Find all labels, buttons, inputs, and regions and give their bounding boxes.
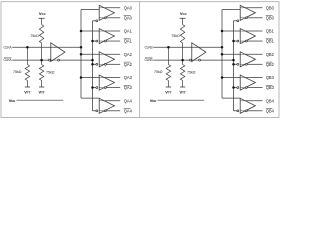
svg-text:VTT: VTT — [180, 90, 186, 95]
svg-text:QA2: QA2 — [124, 52, 133, 57]
svg-text:CLKA: CLKA — [3, 58, 12, 62]
svg-text:75kΩ: 75kΩ — [171, 34, 180, 38]
svg-text:QA3: QA3 — [124, 85, 133, 90]
svg-text:QB0: QB0 — [266, 15, 275, 20]
svg-text:QB0: QB0 — [266, 5, 275, 10]
svg-text:75kΩ: 75kΩ — [13, 70, 22, 74]
svg-text:VCC: VCC — [39, 11, 46, 16]
svg-text:75kΩ: 75kΩ — [187, 71, 196, 75]
svg-text:QB2: QB2 — [266, 62, 275, 67]
svg-text:CLKA: CLKA — [3, 45, 12, 49]
svg-text:75kΩ: 75kΩ — [154, 70, 163, 74]
svg-text:75kΩ: 75kΩ — [30, 34, 39, 38]
svg-text:QB1: QB1 — [266, 29, 275, 34]
svg-text:QA0: QA0 — [124, 5, 133, 10]
svg-text:QA2: QA2 — [124, 62, 133, 67]
svg-text:QA4: QA4 — [124, 98, 133, 103]
svg-text:VTT: VTT — [24, 90, 30, 95]
svg-text:VEE: VEE — [9, 98, 16, 103]
svg-text:CLKB: CLKB — [144, 45, 153, 49]
svg-text:QB4: QB4 — [266, 108, 275, 113]
svg-text:QA0: QA0 — [124, 15, 133, 20]
svg-text:75kΩ: 75kΩ — [46, 71, 55, 75]
svg-text:VTT: VTT — [39, 90, 45, 95]
svg-text:QA4: QA4 — [124, 108, 133, 113]
svg-text:QB4: QB4 — [266, 98, 275, 103]
svg-text:QB3: QB3 — [266, 85, 275, 90]
svg-text:QA1: QA1 — [124, 39, 133, 44]
svg-text:QB1: QB1 — [266, 39, 275, 44]
svg-text:QB2: QB2 — [266, 52, 275, 57]
svg-text:VTT: VTT — [165, 90, 171, 95]
svg-text:QA1: QA1 — [124, 29, 133, 34]
svg-text:VCC: VCC — [180, 11, 187, 16]
svg-text:VEE: VEE — [150, 98, 157, 103]
svg-text:QA3: QA3 — [124, 75, 133, 80]
svg-text:CLKB: CLKB — [144, 58, 153, 62]
svg-text:QB3: QB3 — [266, 75, 275, 80]
